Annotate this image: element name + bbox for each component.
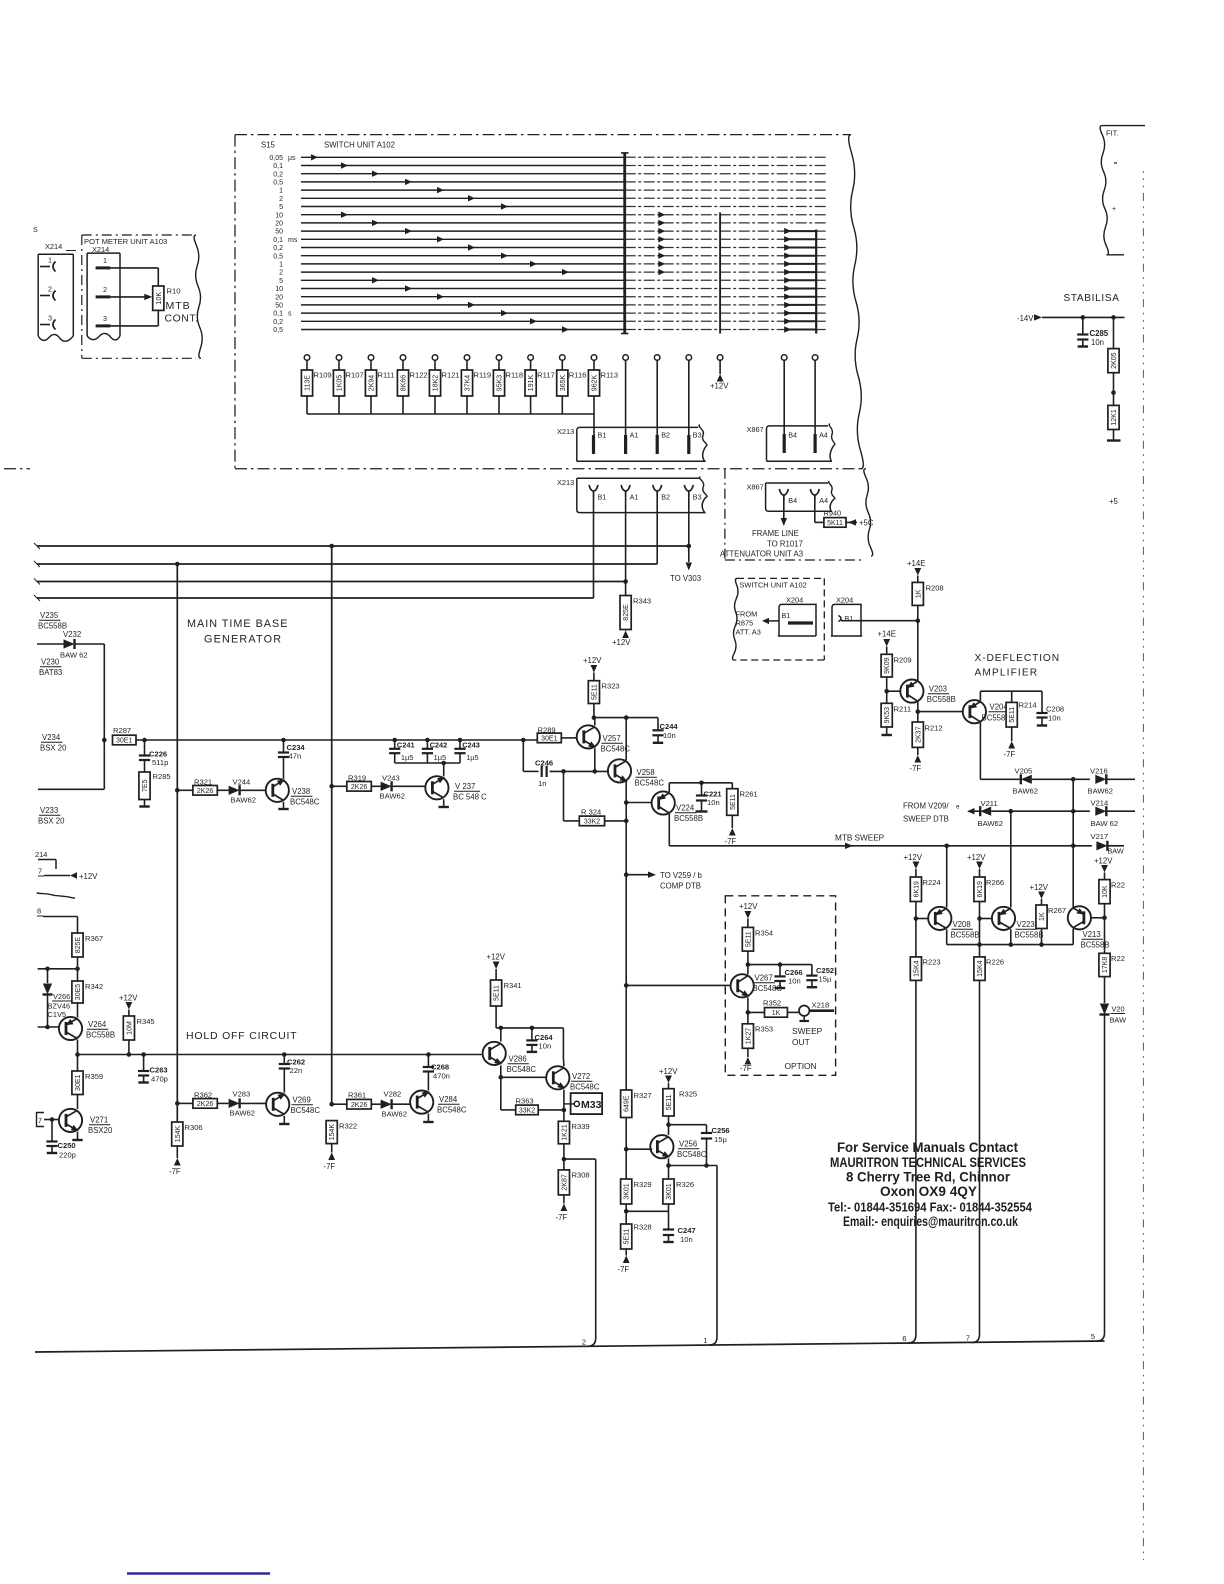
wire V286 collector	[500, 1028, 502, 1042]
svg-text:B1: B1	[782, 611, 791, 620]
svg-text:+12V: +12V	[710, 382, 729, 391]
terminal	[686, 355, 692, 436]
svg-text:12K1: 12K1	[1111, 409, 1118, 425]
wire collector rail	[947, 942, 1073, 947]
label TO V259/b COMP DTB	[626, 871, 702, 891]
capacitor C252	[806, 965, 834, 988]
svg-text:Oxon OX9 4QY: Oxon OX9 4QY	[880, 1183, 978, 1199]
svg-text:2K05: 2K05	[1111, 352, 1118, 368]
resistor R323	[588, 681, 619, 718]
svg-text:R339: R339	[572, 1122, 590, 1131]
svg-text:TO V303: TO V303	[670, 574, 701, 583]
svg-text:V217: V217	[1091, 832, 1109, 841]
svg-text:1K: 1K	[772, 1010, 781, 1017]
wire V204 collector	[979, 723, 981, 780]
connector pin 7 fragment	[37, 1113, 60, 1127]
node	[496, 1006, 503, 1030]
svg-text:30E5: 30E5	[75, 984, 82, 1000]
svg-text:-7F: -7F	[1004, 750, 1016, 759]
svg-text:5E11: 5E11	[591, 684, 598, 700]
svg-text:R875: R875	[736, 619, 754, 628]
svg-text:C285: C285	[1090, 329, 1109, 338]
svg-text:-14V: -14V	[1017, 314, 1034, 323]
resistor R267	[1036, 905, 1066, 945]
svg-text:R361: R361	[348, 1091, 366, 1100]
svg-text:R10: R10	[167, 287, 181, 296]
diode V216	[1088, 767, 1113, 796]
wire X204 B1 to node	[841, 618, 920, 623]
svg-text:R326: R326	[676, 1180, 694, 1189]
svg-text:R214: R214	[1019, 701, 1037, 710]
svg-text:+12V: +12V	[487, 953, 506, 962]
svg-text:0,5: 0,5	[273, 253, 283, 260]
svg-text:X-DEFLECTION: X-DEFLECTION	[975, 653, 1061, 664]
svg-text:BC558B: BC558B	[86, 1031, 115, 1040]
svg-text:3: 3	[103, 314, 107, 323]
svg-text:30E1: 30E1	[75, 1074, 82, 1090]
torn box FIT top right	[1100, 126, 1145, 255]
wire V224 collector	[668, 814, 670, 846]
svg-text:C250: C250	[58, 1141, 76, 1150]
capacitor C244	[652, 718, 678, 743]
wire B2 drop	[656, 497, 658, 565]
svg-text:1: 1	[279, 188, 283, 195]
label FRAME/LINE TO R1017	[720, 529, 803, 559]
svg-text:10M: 10M	[126, 1021, 133, 1035]
svg-text:C246: C246	[535, 759, 553, 768]
wire pot top	[110, 268, 158, 286]
connector X204 female	[831, 596, 861, 637]
resistor R289	[537, 726, 577, 743]
node base V203	[884, 677, 900, 703]
svg-text:For Service Manuals Contact: For Service Manuals Contact	[837, 1139, 1018, 1155]
wire V224 emitter rail	[669, 781, 732, 793]
svg-text:0,5: 0,5	[273, 180, 283, 187]
svg-text:V234: V234	[42, 733, 61, 742]
diode V244	[217, 778, 265, 805]
connector X218 sweep out	[787, 1001, 834, 1048]
wire rail B	[329, 544, 334, 1107]
resistor R354	[742, 927, 773, 974]
svg-text:B3: B3	[693, 493, 702, 502]
svg-text:BSX 20: BSX 20	[40, 744, 67, 753]
svg-text:B2: B2	[661, 493, 670, 502]
resistor R287	[113, 726, 137, 745]
resistor R111	[365, 355, 394, 414]
svg-text:5E11: 5E11	[624, 1228, 631, 1244]
connector X214 female left	[38, 242, 76, 341]
svg-text:B1: B1	[598, 493, 607, 502]
svg-text:15µ: 15µ	[714, 1135, 727, 1144]
svg-text:8: 8	[37, 907, 41, 916]
svg-text:HOLD OFF CIRCUIT: HOLD OFF CIRCUIT	[186, 1030, 297, 1042]
svg-text:470p: 470p	[151, 1075, 168, 1084]
svg-text:C268: C268	[431, 1063, 449, 1072]
svg-text:B4: B4	[788, 496, 797, 505]
svg-text:+12V: +12V	[1030, 883, 1049, 892]
resistor R328	[621, 1223, 652, 1250]
svg-text:0,2: 0,2	[273, 319, 283, 326]
label V234	[40, 733, 67, 753]
label V235	[38, 611, 67, 631]
svg-text:3: 3	[48, 314, 52, 323]
diode V232	[37, 630, 104, 660]
svg-text:1K27: 1K27	[745, 1028, 752, 1044]
svg-text:R329: R329	[634, 1180, 652, 1189]
svg-text:20: 20	[275, 221, 283, 228]
svg-text:V216: V216	[1090, 767, 1108, 776]
svg-text:1µ5: 1µ5	[466, 753, 478, 762]
diode V214	[1091, 799, 1119, 829]
attenuator A3 boundary	[725, 469, 873, 562]
label s fragment	[33, 227, 38, 234]
wire -14V line	[1042, 315, 1125, 320]
svg-text:CONT.: CONT.	[165, 313, 199, 325]
label SWITCH UNIT A102	[324, 141, 395, 150]
resistor R261	[727, 783, 758, 816]
svg-text:R285: R285	[153, 772, 171, 781]
svg-text:825E: 825E	[623, 604, 630, 621]
resistor R211	[881, 703, 911, 727]
wire V264 emitter	[77, 1003, 79, 1018]
wire from V209	[967, 808, 979, 814]
svg-text:R122: R122	[410, 371, 428, 380]
label MAIN TIME BASE GENERATOR	[187, 618, 288, 646]
wire to V204 base	[918, 711, 964, 713]
power -7F	[556, 1195, 568, 1222]
svg-text:-7F: -7F	[910, 764, 922, 773]
svg-text:R208: R208	[926, 584, 944, 593]
resistor R212	[912, 722, 942, 747]
svg-text:BAW62: BAW62	[231, 796, 256, 805]
svg-text:7: 7	[38, 1116, 42, 1125]
svg-text:V243: V243	[382, 774, 400, 783]
svg-text:7: 7	[966, 1334, 970, 1343]
svg-text:STABILISA: STABILISA	[1064, 293, 1120, 304]
transistor V286	[483, 1042, 537, 1074]
svg-text:10: 10	[275, 212, 283, 219]
power +12V	[1030, 883, 1049, 905]
svg-text:C243: C243	[462, 741, 480, 750]
resistor R329	[621, 1179, 652, 1204]
svg-text:C208: C208	[1046, 705, 1064, 714]
svg-text:5E11: 5E11	[1009, 707, 1016, 723]
svg-text:BC548C: BC548C	[291, 1106, 321, 1115]
svg-text:BAW62: BAW62	[1088, 787, 1113, 796]
transistor V203	[900, 680, 956, 705]
label FROM V209/e SWEEP DTB	[903, 802, 960, 824]
svg-text:R322: R322	[339, 1122, 357, 1131]
resistor R223	[910, 957, 940, 981]
svg-text:825E: 825E	[75, 937, 82, 954]
terminal +12V	[710, 355, 729, 391]
svg-text:A1: A1	[630, 431, 639, 440]
svg-text:10: 10	[275, 286, 283, 293]
svg-text:649E: 649E	[624, 1095, 631, 1112]
resistor R359	[72, 1071, 103, 1095]
capacitor C264	[526, 1028, 553, 1052]
option dashed box	[725, 896, 835, 1076]
wire V257 collector	[594, 718, 596, 726]
wire resistor common rail	[307, 413, 594, 415]
power +12V	[904, 853, 923, 877]
svg-text:2K87: 2K87	[561, 1174, 568, 1190]
svg-text:V269: V269	[293, 1096, 311, 1105]
svg-text:-7F: -7F	[169, 1167, 181, 1176]
svg-text:R266: R266	[986, 878, 1004, 887]
svg-text:R359: R359	[85, 1072, 103, 1081]
wire switch column	[719, 212, 721, 333]
resistor R118	[493, 355, 523, 414]
capacitor C262	[279, 1055, 305, 1093]
node A1 drop	[623, 497, 628, 596]
svg-text:R 324: R 324	[581, 808, 601, 817]
ground	[139, 800, 149, 807]
svg-text:µs: µs	[288, 155, 296, 162]
resistor R326	[663, 1166, 694, 1205]
svg-text:V203: V203	[929, 685, 947, 694]
svg-text:2: 2	[582, 1338, 586, 1347]
wire main MTB line	[136, 738, 537, 743]
svg-text:+5: +5	[1109, 497, 1119, 506]
svg-text:SWEEP DTB: SWEEP DTB	[903, 815, 949, 824]
wire R223 to bottom 6	[902, 980, 916, 1343]
transistor V213	[1068, 906, 1110, 949]
svg-text:BAW62: BAW62	[380, 792, 405, 801]
power +12V	[967, 853, 986, 877]
wire R226 to bottom 7	[966, 980, 980, 1342]
svg-text:BSX20: BSX20	[88, 1126, 113, 1135]
svg-text:2: 2	[279, 196, 283, 203]
svg-text:V235: V235	[40, 611, 59, 620]
resistor R319	[332, 774, 372, 792]
svg-text:BC558B: BC558B	[951, 931, 980, 940]
svg-text:s: s	[288, 311, 292, 318]
svg-text:R111: R111	[378, 371, 395, 380]
resistor R119	[461, 355, 491, 414]
svg-text:214: 214	[35, 850, 47, 859]
wire hold-off line	[78, 1052, 482, 1057]
resistor R363	[501, 1097, 564, 1115]
diode V217	[1091, 832, 1125, 856]
power +12V	[659, 1067, 678, 1089]
svg-text:+: +	[1112, 206, 1116, 213]
svg-text:V213: V213	[1083, 930, 1101, 939]
svg-text:V286: V286	[509, 1055, 527, 1064]
svg-text:220p: 220p	[59, 1151, 76, 1160]
svg-text:B2: B2	[661, 431, 670, 440]
measuring point M33	[564, 1093, 602, 1114]
svg-text:BAW62: BAW62	[382, 1110, 407, 1119]
wire V258 collector	[625, 718, 627, 761]
svg-text:V205: V205	[1015, 767, 1033, 776]
svg-text:B1: B1	[598, 431, 607, 440]
svg-text:V208: V208	[953, 920, 971, 929]
svg-text:17K8: 17K8	[1102, 957, 1109, 973]
svg-text:R308: R308	[572, 1171, 590, 1180]
capacitor C247	[663, 1226, 696, 1244]
capacitor C263	[138, 1055, 168, 1084]
switch unit A102 boundary box	[235, 135, 863, 469]
svg-text:AMPLIFIER: AMPLIFIER	[975, 668, 1039, 679]
resistor R107	[333, 355, 363, 414]
svg-text:COMP DTB: COMP DTB	[660, 882, 701, 891]
svg-text:BC558B: BC558B	[927, 695, 956, 704]
svg-text:FROM V209/: FROM V209/	[903, 802, 949, 811]
wire V213 collector	[1072, 929, 1074, 945]
wire switch column	[815, 230, 817, 334]
terminal	[654, 355, 660, 436]
svg-text:2K37: 2K37	[915, 726, 922, 742]
svg-text:V233: V233	[40, 806, 58, 815]
transistor V284	[410, 1091, 467, 1115]
transistor V256	[650, 1135, 707, 1159]
svg-text:BAW62: BAW62	[230, 1109, 255, 1118]
svg-text:Email:- enquiries@mauritron.co: Email:- enquiries@mauritron.co.uk	[843, 1214, 1018, 1229]
svg-text:R363: R363	[516, 1097, 534, 1106]
svg-text:R119: R119	[474, 371, 492, 380]
diode V283	[217, 1090, 265, 1118]
capacitor C208	[1036, 691, 1064, 725]
svg-text:V20: V20	[1112, 1005, 1125, 1014]
wire	[1107, 778, 1135, 780]
svg-text:B3: B3	[693, 431, 702, 440]
svg-text:TO R1017: TO R1017	[767, 540, 803, 549]
svg-text:R940: R940	[824, 509, 842, 518]
svg-text:C241: C241	[397, 741, 415, 750]
ground V269 emitter	[279, 1116, 289, 1124]
svg-text:BC558B: BC558B	[674, 814, 703, 823]
connector X214 male right	[87, 245, 120, 340]
transistor V272	[546, 1066, 600, 1091]
node base V223	[977, 902, 992, 957]
power +12V	[1094, 857, 1113, 880]
svg-text:5E11: 5E11	[494, 985, 501, 1001]
svg-text:C247: C247	[678, 1226, 696, 1235]
switch unit A102 fragment box	[732, 578, 824, 660]
svg-text:470n: 470n	[433, 1072, 450, 1081]
node base V208	[914, 902, 928, 957]
node V286 emitter	[499, 1065, 504, 1110]
terminal	[781, 355, 787, 436]
svg-text:2K94: 2K94	[369, 375, 376, 391]
transistor V237	[425, 776, 487, 801]
transistor V223	[992, 907, 1044, 940]
power -7F	[725, 815, 737, 846]
wire V264 collector	[75, 1040, 80, 1072]
svg-text:R328: R328	[634, 1223, 652, 1232]
resistor R322	[326, 1121, 357, 1144]
svg-text:FRAME LINE: FRAME LINE	[752, 529, 799, 538]
resistor R321	[177, 778, 217, 796]
svg-text:0,1: 0,1	[273, 311, 283, 318]
wire collector node	[748, 962, 812, 967]
transistor V269	[266, 1093, 320, 1116]
svg-text:BC548C: BC548C	[507, 1065, 537, 1074]
svg-text:R343: R343	[633, 597, 651, 606]
resistor R306	[172, 1122, 203, 1146]
wire base V264	[38, 1026, 59, 1028]
svg-text:0,1: 0,1	[273, 237, 283, 244]
svg-text:V264: V264	[88, 1020, 107, 1029]
resistor R325	[663, 1089, 697, 1116]
svg-text:1: 1	[703, 1336, 707, 1345]
svg-text:V238: V238	[292, 787, 310, 796]
svg-text:ATTENUATOR UNIT A3: ATTENUATOR UNIT A3	[720, 550, 803, 559]
resistor R109	[301, 355, 331, 414]
label FROM R875 ATT A3	[736, 610, 780, 637]
svg-text:S: S	[33, 227, 38, 234]
svg-text:2: 2	[103, 285, 107, 294]
svg-text:10n: 10n	[663, 731, 676, 740]
svg-text:M33: M33	[581, 1099, 602, 1111]
svg-text:V267: V267	[755, 974, 773, 983]
svg-text:0,2: 0,2	[273, 245, 283, 252]
svg-text:1K05: 1K05	[337, 375, 344, 391]
power +12V	[583, 656, 602, 681]
svg-text:FROM: FROM	[736, 610, 758, 619]
capacitor C256	[701, 1125, 730, 1166]
transistor V267	[731, 974, 783, 998]
svg-text:C263: C263	[150, 1066, 168, 1075]
svg-text:9K09: 9K09	[884, 657, 891, 673]
node V203 collector	[916, 702, 921, 722]
resistor R339	[558, 1121, 589, 1144]
resistor R940	[815, 497, 874, 528]
terminal	[812, 355, 818, 436]
svg-text:A4: A4	[819, 431, 828, 440]
diode V282	[371, 1090, 410, 1119]
svg-text:MTB: MTB	[166, 300, 191, 312]
svg-text:R22: R22	[1111, 954, 1125, 963]
transistor V204	[963, 700, 1011, 723]
svg-text:B1: B1	[845, 614, 854, 623]
wire base V256	[626, 1148, 652, 1150]
svg-text:95K3: 95K3	[497, 375, 504, 391]
svg-text:+12V: +12V	[739, 902, 758, 911]
svg-text:1K: 1K	[1039, 912, 1046, 921]
svg-text:5: 5	[1091, 1332, 1095, 1341]
svg-text:R267: R267	[1048, 906, 1066, 915]
svg-text:BC548C: BC548C	[635, 779, 665, 788]
svg-text:R341: R341	[504, 981, 522, 990]
switch wiper common bar	[621, 153, 629, 334]
svg-text:+5C: +5C	[859, 519, 874, 528]
node base V213	[1090, 916, 1106, 921]
svg-text:10n: 10n	[1048, 714, 1061, 723]
svg-text:V266: V266	[53, 992, 70, 1001]
svg-text:BAW 62: BAW 62	[60, 651, 88, 660]
svg-text:10n: 10n	[680, 1235, 693, 1244]
ground	[882, 727, 892, 735]
svg-text:BAW62: BAW62	[978, 819, 1003, 828]
svg-text:S15: S15	[261, 141, 276, 150]
wire V208 collector	[946, 929, 948, 944]
transistor V271	[59, 1109, 113, 1135]
capacitor C226	[139, 740, 168, 767]
svg-text:R118: R118	[506, 371, 524, 380]
svg-text:30E1: 30E1	[116, 738, 132, 745]
svg-text:R224: R224	[923, 878, 941, 887]
power -7F	[910, 747, 922, 773]
svg-text:V 237: V 237	[455, 782, 475, 791]
wire B1 drop	[593, 497, 595, 599]
svg-text:R261: R261	[740, 790, 758, 799]
label V230	[39, 658, 62, 678]
resistor R361	[332, 1091, 372, 1110]
svg-text:V214: V214	[1091, 799, 1109, 808]
resistor R228 10K	[1099, 880, 1125, 918]
